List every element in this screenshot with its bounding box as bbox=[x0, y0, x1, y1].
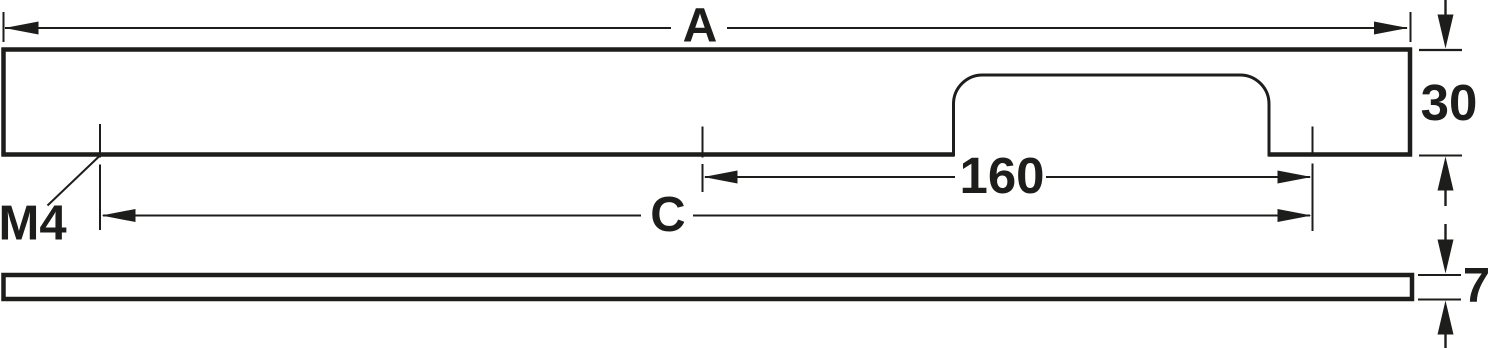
dimension 7 arrowhead top (down) bbox=[1438, 240, 1454, 274]
dimension 160 arrowhead right bbox=[1278, 171, 1312, 184]
handle bar front profile (bottom edge left segment) bbox=[2, 152, 955, 157]
dimension 30 extension line bottom bbox=[1419, 155, 1462, 157]
hole center mark middle bbox=[702, 127, 704, 158]
dimension A arrowhead left bbox=[5, 22, 39, 35]
dimension 7 arrow shaft top bbox=[1444, 224, 1446, 241]
dimension 160 line right segment bbox=[1046, 176, 1310, 178]
dimension 7 extension line top bbox=[1418, 274, 1461, 276]
dimension A extension tick right bbox=[1410, 12, 1412, 42]
handle side profile plate bbox=[4, 275, 1413, 299]
M4 leader line bbox=[48, 156, 101, 206]
svg-text:M4: M4 bbox=[0, 197, 67, 251]
handle bar front profile (bottom edge right segment) bbox=[1269, 152, 1413, 157]
extension line below middle hole bbox=[702, 164, 704, 192]
grip recess outline bbox=[954, 75, 1270, 157]
dimension 160 line left segment bbox=[705, 176, 955, 178]
dimension A arrowhead right bbox=[1374, 22, 1408, 35]
dimension C line left segment bbox=[103, 215, 641, 217]
dimension C line right segment bbox=[693, 215, 1310, 217]
svg-text:30: 30 bbox=[1421, 74, 1478, 131]
dimension A line right segment bbox=[727, 27, 1407, 29]
dimension 30 arrow shaft top bbox=[1444, 0, 1446, 16]
dimension C arrowhead right bbox=[1278, 209, 1312, 222]
svg-text:A: A bbox=[683, 0, 718, 53]
svg-text:C: C bbox=[650, 188, 685, 242]
extension line below right hole bbox=[1312, 164, 1314, 232]
dimension 30 arrowhead top (down) bbox=[1438, 15, 1454, 49]
handle bar front profile (right edge) bbox=[1408, 48, 1413, 157]
extension line below left hole bbox=[99, 165, 101, 231]
dimension 7 arrowhead bottom (up) bbox=[1438, 301, 1454, 335]
handle bar front profile (top edge) bbox=[2, 47, 1413, 52]
svg-text:7: 7 bbox=[1463, 259, 1488, 313]
hole center mark left (M4 hole) bbox=[99, 124, 101, 158]
handle bar front profile (left edge) bbox=[1, 48, 6, 157]
dimension A extension tick left bbox=[3, 12, 5, 42]
dimension 30 arrow shaft bottom bbox=[1444, 188, 1446, 206]
dimension 7 arrow shaft bottom bbox=[1444, 333, 1446, 348]
dimension 30 arrowhead bottom (up) bbox=[1438, 157, 1454, 191]
dimension 30 extension line top bbox=[1419, 49, 1462, 51]
hole center mark right bbox=[1312, 127, 1314, 156]
dimension 7 extension line bottom bbox=[1418, 299, 1461, 301]
dimension A line left segment bbox=[5, 27, 671, 29]
svg-text:160: 160 bbox=[959, 147, 1044, 204]
dimension 160 arrowhead left bbox=[704, 171, 738, 184]
dimension C arrowhead left bbox=[102, 209, 136, 222]
